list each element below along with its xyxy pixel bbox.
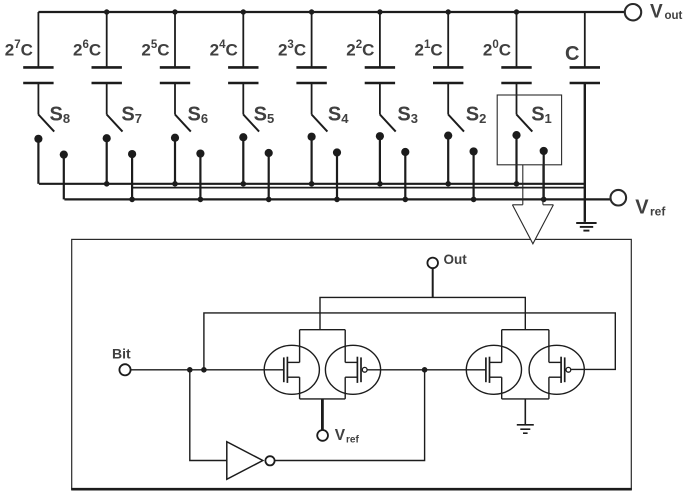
- capacitor 2^7C (C8): [23, 12, 53, 83]
- wire middle rail: [132, 187, 585, 189]
- label Vref: [635, 196, 666, 218]
- wire mid between pairs: [367, 369, 486, 371]
- terminal Vref detail circle: [317, 430, 328, 441]
- label 2^2C: [346, 39, 374, 60]
- label 2^4C: [210, 39, 238, 60]
- node junction upper rail S6: [172, 181, 178, 187]
- node junction top rail C4: [309, 9, 314, 14]
- node junction upper rail S5: [241, 181, 247, 187]
- svg-text:C: C: [565, 43, 579, 65]
- callout arrow stem: [523, 165, 543, 205]
- label Out: [444, 252, 468, 267]
- transistor TG2 NMOS: [466, 345, 521, 394]
- svg-text:out: out: [665, 10, 683, 22]
- transistor TG1 PMOS: [325, 345, 380, 394]
- label S7: [121, 103, 142, 126]
- svg-text:ref: ref: [650, 204, 666, 218]
- capacitor 2^4C (C5): [228, 12, 258, 83]
- node junction Bit to loop: [201, 367, 207, 373]
- node junction upper rail S7: [104, 181, 110, 187]
- terminal Out circle: [427, 258, 438, 269]
- label 2^5C: [141, 39, 169, 60]
- svg-text:ref: ref: [346, 434, 359, 445]
- wire TG2 drain/source frame: [502, 330, 549, 399]
- node junction lower rail S4: [334, 197, 340, 203]
- label 2^0C: [483, 39, 511, 60]
- ground symbol top circuit: [576, 223, 596, 231]
- svg-text:Out: Out: [444, 252, 468, 267]
- transistor TG2 PMOS: [529, 345, 584, 394]
- transistor TG1 NMOS: [264, 345, 319, 394]
- wire TG1 to Vref terminal: [321, 399, 324, 431]
- svg-text:S1: S1: [531, 103, 552, 126]
- capacitor 2^5C (C6): [160, 12, 190, 83]
- switch S4: [308, 83, 342, 199]
- svg-text:24C: 24C: [210, 39, 238, 60]
- label 2^7C: [5, 39, 33, 60]
- capacitor 2^1C (C2): [433, 12, 463, 83]
- capacitor 2^3C (C4): [296, 12, 326, 83]
- callout box around S1: [497, 95, 561, 165]
- svg-text:V: V: [335, 427, 346, 444]
- node junction top rail C1: [514, 9, 519, 14]
- label 2^6C: [73, 39, 101, 60]
- detail box: [71, 239, 632, 489]
- wire Out horizontal: [320, 297, 525, 329]
- node junction top rail C6: [172, 9, 177, 14]
- capacitor 2^2C (C3): [365, 12, 395, 83]
- ground symbol detail: [517, 425, 534, 433]
- wire TG1 drain/source frame: [300, 330, 346, 399]
- wire TG2 to ground: [524, 399, 526, 425]
- wire inverter output: [274, 370, 424, 461]
- label S2: [466, 103, 487, 126]
- wire cap C to ground: [584, 83, 586, 222]
- wire Bit down to inverter input: [190, 370, 227, 461]
- switch S8: [34, 83, 68, 199]
- capacitor C: [570, 12, 600, 83]
- switch S7: [103, 83, 137, 199]
- svg-text:27C: 27C: [5, 39, 33, 60]
- wire Out stub: [432, 268, 434, 297]
- switch S3: [376, 83, 410, 199]
- node junction lower rail S5: [266, 197, 272, 203]
- label C: [565, 43, 579, 65]
- svg-text:V: V: [650, 2, 663, 23]
- svg-text:Bit: Bit: [112, 345, 131, 361]
- node junction lower rail S7: [129, 197, 135, 203]
- inverter U1: [227, 442, 275, 480]
- label 2^1C: [415, 39, 443, 60]
- wire upper ground rail: [39, 183, 585, 185]
- node junction Bit to inverter: [187, 367, 193, 373]
- svg-text:23C: 23C: [278, 39, 306, 60]
- wire lower Vref rail: [64, 198, 610, 200]
- node junction lower rail S3: [403, 197, 409, 203]
- svg-text:S2: S2: [466, 103, 487, 126]
- callout arrow head: [512, 205, 553, 244]
- svg-text:S7: S7: [121, 103, 142, 126]
- node junction upper rail S3: [377, 181, 383, 187]
- node junction upper rail S4: [309, 181, 315, 187]
- wire top rail to Vout: [38, 11, 624, 13]
- node junction top rail C5: [241, 9, 246, 14]
- switch S5: [239, 83, 273, 199]
- label 2^3C: [278, 39, 306, 60]
- svg-text:S4: S4: [328, 103, 349, 126]
- node junction upper rail S1: [514, 181, 520, 187]
- node junction top rail C3: [377, 9, 382, 14]
- svg-text:20C: 20C: [483, 39, 511, 60]
- label S5: [254, 103, 275, 126]
- label S4: [328, 103, 349, 126]
- svg-text:22C: 22C: [346, 39, 374, 60]
- svg-text:S6: S6: [188, 103, 209, 126]
- node junction lower rail S1: [541, 197, 547, 203]
- switch S6: [171, 83, 205, 199]
- node junction inverter output mid wire: [422, 367, 428, 373]
- label Vref detail: [335, 427, 360, 445]
- capacitor 2^0C (C1): [501, 12, 531, 83]
- wire Bit to left gate: [131, 369, 284, 371]
- capacitor 2^6C (C7): [92, 12, 122, 83]
- label S8: [50, 103, 71, 126]
- svg-text:S3: S3: [397, 103, 418, 126]
- label Vout: [650, 2, 683, 23]
- terminal Bit circle: [119, 364, 130, 375]
- svg-text:V: V: [635, 196, 649, 218]
- svg-text:S5: S5: [254, 103, 275, 126]
- svg-text:S8: S8: [50, 103, 71, 126]
- wire Bit loop top: [204, 313, 615, 370]
- label S6: [188, 103, 209, 126]
- terminal Vout circle: [625, 4, 641, 20]
- svg-text:21C: 21C: [415, 39, 443, 60]
- node junction upper rail S2: [445, 181, 451, 187]
- switch S2: [444, 83, 478, 199]
- node junction top rail C2: [446, 9, 451, 14]
- node junction top rail C7: [104, 9, 109, 14]
- terminal Vref circle: [611, 190, 627, 206]
- switch S1: [512, 83, 547, 199]
- svg-text:25C: 25C: [141, 39, 169, 60]
- svg-text:26C: 26C: [73, 39, 101, 60]
- label S3: [397, 103, 418, 126]
- label Bit: [112, 345, 131, 361]
- node junction lower rail S2: [471, 197, 477, 203]
- label S1: [531, 103, 552, 126]
- node junction lower rail S6: [198, 197, 204, 203]
